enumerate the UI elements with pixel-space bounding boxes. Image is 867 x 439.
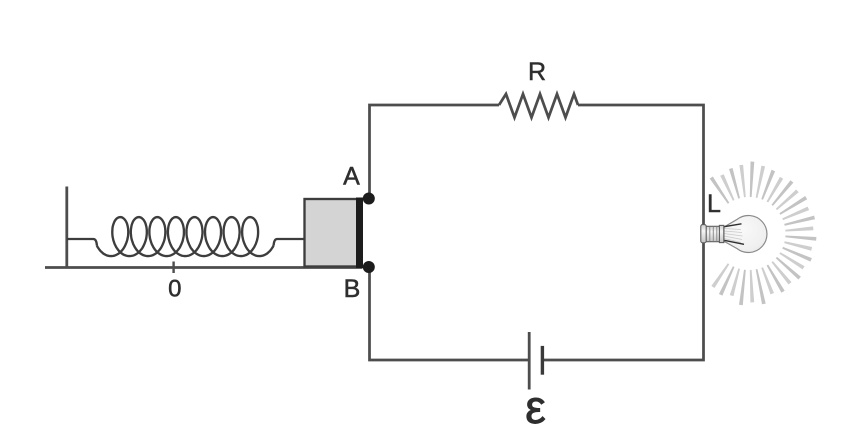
wall (left fixed support) — [65, 187, 68, 269]
bulb screw base — [706, 226, 724, 241]
node A — [363, 193, 375, 205]
spring coil — [97, 217, 274, 256]
spring right end hook — [274, 239, 305, 245]
bulb filament support wires — [724, 224, 742, 227]
base flange — [701, 225, 706, 243]
svg-text:ε: ε — [525, 381, 546, 433]
svg-text:B: B — [344, 275, 361, 303]
floor line — [45, 266, 363, 269]
spring left end hook — [67, 239, 97, 245]
wire from node A up and right to resistor — [370, 105, 500, 199]
svg-text:A: A — [343, 163, 360, 191]
wire from resistor right, down right side, left to battery positive plate — [542, 105, 703, 360]
battery long plate — [528, 332, 531, 390]
origin tick — [172, 262, 174, 274]
base thread ridges — [710, 227, 717, 242]
resistor R zigzag — [499, 94, 578, 118]
svg-text:R: R — [528, 58, 546, 86]
bulb glass — [724, 216, 767, 253]
block (mass) — [305, 199, 358, 267]
wire from battery negative plate to bottom-left corner and up to node B — [370, 267, 530, 360]
base right collar — [719, 225, 723, 242]
svg-text:L: L — [707, 190, 721, 218]
node B — [363, 261, 375, 273]
light rays around bulb L — [710, 162, 817, 306]
contact bar on block — [356, 198, 363, 269]
svg-text:0: 0 — [168, 276, 181, 303]
bulb neck shading fan — [724, 229, 743, 243]
battery short plate — [541, 346, 544, 375]
